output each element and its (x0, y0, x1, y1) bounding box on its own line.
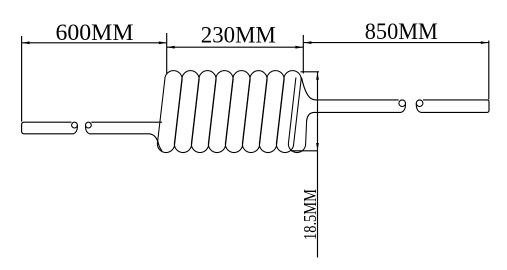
extension line left end of 600MM (21, 36, 23, 122)
coil exit top edge (right cable segment A top) (302, 78, 399, 100)
extension line right end of 850MM (488, 41, 490, 100)
extension line shared 600MM/230MM (166, 33, 168, 74)
coil loop 5 (225, 71, 250, 153)
svg-text:600MM: 600MM (56, 20, 134, 45)
right cable segment B (outline with flat right end) (421, 100, 489, 113)
coil loop 2 (174, 71, 199, 153)
dimension label 18.5MM (rotated) (300, 189, 320, 240)
break curl tail at right cable segment A end (401, 103, 405, 112)
dimension label 230MM (201, 22, 276, 47)
break curl tail at left cable segment B start (85, 125, 89, 134)
break curl tail at left cable segment A end (74, 125, 78, 134)
svg-text:230MM: 230MM (201, 22, 276, 47)
extension line shared 230MM/850MM (302, 35, 304, 74)
left cable segment B bottom edge into coil (89, 134, 162, 151)
break curl circle at left cable segment A end (72, 122, 78, 128)
coil loop 1 (157, 71, 182, 153)
break curl tail at right cable segment B start (416, 103, 420, 112)
coil loop 7 (259, 71, 284, 153)
coil loop 6 (242, 71, 267, 153)
coil loop 8 (276, 71, 301, 153)
coil partial loop 9 (288, 78, 306, 153)
svg-text:850MM: 850MM (365, 19, 438, 44)
18.5MM top tick line (301, 71, 320, 73)
dimension line 850MM with arrows (304, 41, 489, 44)
coil loop 3 (191, 71, 216, 153)
coil loop 4 (208, 71, 233, 153)
dimension label 600MM (56, 20, 134, 45)
break curl circle at right cable segment A end (399, 100, 406, 107)
dimension line 230MM with arrows (167, 46, 303, 49)
coil exit bottom edge (right cable segment A bottom) (307, 112, 402, 121)
left cable segment B top edge into coil (91, 121, 162, 123)
left cable segment A (outline with rounded left end) (22, 122, 74, 134)
18.5MM bottom tick line (291, 150, 318, 152)
break curl circle at right cable segment B start (416, 100, 423, 107)
18.5MM dimension line with arrows (316, 72, 319, 257)
dimension line 600MM with arrows (22, 41, 167, 44)
dimension label 850MM (365, 19, 438, 44)
break curl circle at left cable segment B start (86, 122, 92, 128)
